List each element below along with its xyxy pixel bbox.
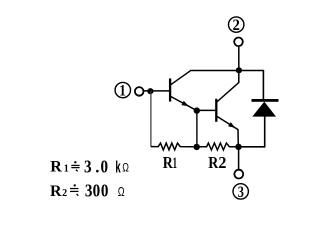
svg-text:Ω: Ω	[118, 186, 125, 200]
wire middle vertical	[196, 111, 198, 147]
node Q1 emitter / Q2 base	[194, 107, 200, 113]
svg-text:0: 0	[101, 180, 109, 201]
svg-text:0: 0	[93, 180, 101, 201]
wire terminal1 to Q1 base	[144, 90, 170, 92]
terminal label 3	[233, 184, 248, 202]
svg-text:3: 3	[238, 184, 244, 202]
svg-text:R: R	[163, 154, 174, 173]
junction bottom rail / emitter / terminal 3	[235, 144, 241, 150]
junction node near terminal 1	[147, 88, 153, 94]
svg-text:3: 3	[84, 156, 92, 177]
svg-text:.: .	[95, 157, 99, 176]
junction between R1 and R2	[194, 144, 200, 150]
value label R1 = 3.0 kOhm	[50, 156, 129, 177]
terminal label 1	[115, 82, 130, 100]
wire Q2 base lead	[197, 109, 216, 111]
svg-text:R: R	[50, 183, 62, 200]
svg-text:R: R	[208, 154, 219, 173]
terminal label 2	[229, 17, 244, 34]
svg-text:1: 1	[64, 163, 69, 174]
wire terminal2 to top rail	[238, 46, 240, 70]
svg-text:2: 2	[218, 153, 226, 172]
junction top rail / terminal 2	[236, 67, 242, 73]
resistor R2	[197, 143, 239, 172]
svg-text:0: 0	[101, 156, 109, 177]
svg-text:R: R	[50, 158, 62, 175]
wire top rail corner down to diode	[262, 71, 264, 101]
svg-text:1: 1	[173, 153, 177, 172]
svg-text:3: 3	[85, 180, 93, 201]
wire top rail	[190, 70, 264, 72]
terminal 2 pin	[234, 38, 243, 47]
svg-text:Ω: Ω	[122, 162, 129, 174]
svg-text:2: 2	[233, 18, 240, 34]
wire left vertical	[150, 91, 152, 147]
svg-text:1: 1	[119, 83, 126, 100]
resistor R1	[151, 143, 194, 172]
wire bottom rail right + corner up to diode	[239, 116, 265, 147]
terminal 3 pin	[234, 170, 243, 179]
svg-text:k: k	[115, 158, 121, 177]
svg-text:2: 2	[62, 188, 67, 199]
value label R2 = 300 Ohm	[50, 180, 125, 201]
diode D1	[252, 99, 279, 117]
transistor Q2	[216, 71, 239, 147]
terminal 1 pin	[135, 87, 144, 96]
wire to terminal 3	[238, 147, 240, 170]
transistor Q1	[170, 71, 196, 110]
